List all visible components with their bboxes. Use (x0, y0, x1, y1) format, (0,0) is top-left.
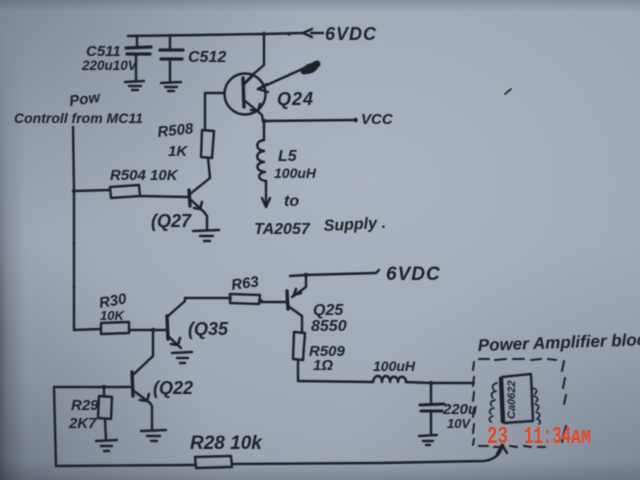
svg-text:R29: R29 (71, 397, 99, 414)
svg-text:100uH: 100uH (274, 165, 317, 181)
svg-text:1Ω: 1Ω (313, 357, 333, 374)
svg-text:6VDC: 6VDC (386, 264, 441, 285)
svg-text:Supply .: Supply . (323, 215, 386, 235)
svg-text:220u10V: 220u10V (81, 58, 138, 73)
svg-text:C512: C512 (188, 49, 226, 66)
svg-text:TA2057: TA2057 (254, 221, 311, 238)
svg-text:100uH: 100uH (373, 358, 416, 374)
svg-text:Q25: Q25 (313, 302, 344, 319)
svg-text:(Q22: (Q22 (153, 378, 193, 398)
svg-text:(Q27: (Q27 (151, 211, 192, 231)
svg-text:Controll from MC11: Controll from MC11 (14, 110, 143, 126)
svg-text:to: to (284, 193, 299, 210)
svg-text:6VDC: 6VDC (325, 24, 377, 44)
svg-text:AM: AM (571, 427, 591, 449)
svg-text:1K: 1K (168, 143, 188, 160)
svg-text:L5: L5 (278, 148, 298, 165)
svg-text:23: 23 (487, 424, 508, 451)
svg-text:Ca0622: Ca0622 (506, 380, 518, 419)
svg-text:2K7: 2K7 (68, 415, 97, 432)
svg-text:R504 10K: R504 10K (110, 167, 179, 184)
svg-text:8550: 8550 (311, 318, 347, 335)
svg-text:Q24: Q24 (277, 89, 314, 109)
svg-text:10V: 10V (447, 416, 471, 431)
svg-text:11:34: 11:34 (524, 424, 571, 451)
svg-text:(Q35: (Q35 (188, 319, 229, 339)
svg-text:10K: 10K (100, 308, 125, 323)
svg-text:VCC: VCC (361, 111, 394, 128)
svg-text:R28 10k: R28 10k (190, 433, 263, 454)
